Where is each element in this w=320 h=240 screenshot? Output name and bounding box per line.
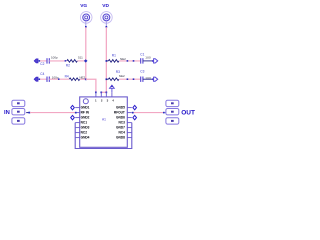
svg-text:100p: 100p <box>51 56 58 60</box>
junction diamond VG row1 <box>84 59 88 62</box>
node dot IN <box>28 112 30 114</box>
svg-text:R1: R1 <box>112 54 116 58</box>
svg-text:511: 511 <box>78 55 83 59</box>
port P5 (row2 right output) <box>152 78 154 80</box>
svg-text:NC3: NC3 <box>119 121 126 125</box>
capacitor C3 <box>141 77 143 82</box>
wire R1 to C1 <box>119 60 140 62</box>
wire IN to IC <box>26 112 30 114</box>
node dot VD <box>106 26 108 28</box>
node dot VG corner <box>85 78 87 80</box>
svg-text:NC1: NC1 <box>81 121 88 125</box>
node dot at pin L2 <box>75 112 77 114</box>
svg-text:A1: A1 <box>102 118 106 122</box>
IC pin1 indicator circle <box>83 99 88 104</box>
IN port symbol 1 <box>12 100 25 106</box>
IN sym2 inner mark <box>17 111 20 113</box>
svg-text:RFOUT: RFOUT <box>114 111 125 115</box>
diamond flag pin R1 <box>133 105 137 109</box>
node dot VG <box>85 26 87 28</box>
svg-text:GND5: GND5 <box>116 106 125 110</box>
node dot gate pin <box>95 92 97 94</box>
node dot <box>127 78 129 80</box>
svg-text:GND8: GND8 <box>116 136 125 140</box>
wire VD to R3 <box>106 78 108 80</box>
IC U1 body <box>80 97 128 147</box>
IC right pin stubs <box>127 108 132 138</box>
IN sym3 inner mark <box>17 120 20 122</box>
node dot <box>133 78 135 80</box>
OUT sym2 inner mark <box>171 111 174 113</box>
node dot at pin R2 <box>132 112 134 114</box>
wire IN pink <box>30 112 75 114</box>
svg-text:C3: C3 <box>140 70 144 74</box>
resistor R3 <box>108 78 119 81</box>
port P2 (row1 left input) <box>34 59 38 63</box>
svg-text:R4: R4 <box>65 74 69 78</box>
node dot <box>65 60 67 62</box>
diamond flag pin R3 <box>133 115 137 119</box>
wire row1 port to C2 <box>40 60 47 62</box>
IC left pin stubs <box>75 108 80 138</box>
port P3 (row1 right output) <box>152 60 154 62</box>
wire VD vertical <box>105 27 107 92</box>
OUT sym3 inner mark <box>171 120 174 122</box>
svg-text:GND4: GND4 <box>81 136 90 140</box>
wire OUT dark end <box>163 112 166 114</box>
wire VG vertical <box>85 27 87 79</box>
node dot VD row2 <box>106 78 108 80</box>
capacitor C1 <box>141 58 143 63</box>
wire C3 to port <box>143 78 152 80</box>
svg-text:GND1: GND1 <box>81 106 90 110</box>
svg-text:GND7: GND7 <box>116 126 125 130</box>
IC top pin numbers <box>95 98 114 102</box>
OUT sym1 inner mark <box>171 102 174 104</box>
svg-text:C2: C2 <box>40 62 44 66</box>
node dot VD pin2 <box>100 92 102 94</box>
wire R4 to VG corner <box>80 78 86 80</box>
svg-text:GND2: GND2 <box>81 116 90 120</box>
wire row2 port to C4 <box>40 78 47 80</box>
power port VG circle <box>80 12 92 24</box>
svg-text:OUT: OUT <box>181 110 195 117</box>
node dot OUT <box>163 112 165 114</box>
svg-text:R2: R2 <box>66 63 70 67</box>
power arrow on pin 4 <box>110 85 115 92</box>
svg-text:IN: IN <box>4 110 10 116</box>
IN port symbol 3 <box>12 118 25 124</box>
left ground bracket wire <box>75 123 132 149</box>
node dot row2 left <box>39 78 41 80</box>
capacitor C2 <box>47 58 49 63</box>
resistor R4 <box>69 78 80 81</box>
power port VD circle <box>101 12 113 24</box>
wire VD stem <box>105 21 107 27</box>
wire VD bottom jog <box>101 91 106 93</box>
svg-text:NE2: NE2 <box>119 74 125 78</box>
node dot VD pin3 <box>106 92 108 94</box>
svg-text:VD: VD <box>102 3 109 9</box>
wire C2 to R2 <box>49 60 67 62</box>
OUT port symbol 3 <box>166 118 179 124</box>
diamond flag pin L3 <box>71 115 75 119</box>
svg-text:GND6: GND6 <box>116 116 125 120</box>
svg-text:C4: C4 <box>40 72 44 76</box>
svg-text:NC4: NC4 <box>119 131 126 135</box>
svg-text:1U0: 1U0 <box>145 56 151 60</box>
wire VG stem <box>85 21 87 27</box>
wire VD to R1 <box>106 60 108 62</box>
svg-text:NC2: NC2 <box>81 131 88 135</box>
svg-text:C1: C1 <box>140 53 144 57</box>
wire OUT pink <box>132 112 164 114</box>
OUT port symbol 1 <box>166 100 179 106</box>
wire R3 to C3 <box>119 78 140 80</box>
node dot row1 left <box>39 60 41 62</box>
resistor R1 <box>108 60 119 63</box>
diamond flag pin L1 <box>71 105 75 109</box>
wire R2 to VG line <box>77 60 85 62</box>
node dot <box>127 60 129 62</box>
port P4 (row2 left input) <box>34 77 38 81</box>
OUT port symbol 2 <box>166 109 179 115</box>
IC right pin names <box>114 106 125 140</box>
node dot VD row1 <box>106 60 108 62</box>
IN port symbol 2 <box>12 109 25 115</box>
capacitor C4 <box>47 77 49 82</box>
node dot <box>58 78 60 80</box>
svg-text:VG: VG <box>80 3 87 9</box>
wire VG corner to gate drop <box>86 79 96 92</box>
svg-text:RF IN: RF IN <box>81 111 90 115</box>
resistor R2 <box>67 60 78 63</box>
wire C4 to R4 <box>49 78 69 80</box>
node dot <box>133 60 135 62</box>
IC left pin names <box>81 106 90 140</box>
IC top pin stubs <box>96 92 112 97</box>
svg-text:GND3: GND3 <box>81 126 90 130</box>
wire C1 to port <box>143 60 152 62</box>
IN sym1 inner mark <box>17 102 20 104</box>
